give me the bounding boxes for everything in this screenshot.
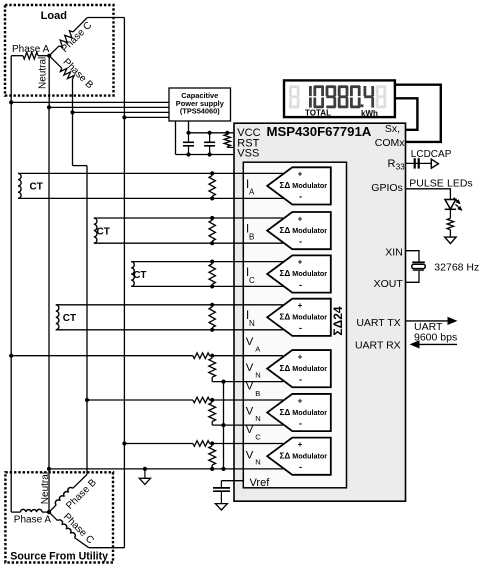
svg-text:Modulator: Modulator: [292, 181, 327, 190]
svg-text:+: +: [298, 170, 303, 179]
VN common vertical wire: [223, 382, 225, 469]
pin UART TX label: [356, 317, 400, 329]
pin Sx COMx labels: [375, 123, 405, 149]
svg-text:Sx,: Sx,: [385, 123, 400, 135]
capacitor C2: [204, 133, 215, 155]
svg-text:B: B: [249, 232, 254, 241]
resistor LED: [447, 218, 454, 230]
LCDCAP arrow: [431, 159, 438, 168]
voltage divider phase A VN wire: [212, 380, 283, 384]
voltage divider phase A series wire: [11, 355, 193, 357]
svg-text:LEDs: LEDs: [447, 177, 473, 189]
phase A vertical wire: [10, 102, 12, 512]
LED series wire: [449, 209, 451, 218]
voltage divider phase B shunt resistor: [209, 403, 216, 426]
svg-text:Modulator: Modulator: [292, 364, 327, 373]
ground G1: [139, 467, 150, 485]
XIN wire: [406, 251, 420, 262]
svg-text:Neutral: Neutral: [40, 472, 51, 504]
current transformer CT1 phase A burden resistor: [209, 176, 215, 197]
voltage divider phase B VN wire: [212, 423, 283, 427]
svg-text:Modulator: Modulator: [292, 408, 327, 417]
source label Phase C: [61, 511, 96, 546]
voltage divider phase C tap node: [122, 441, 126, 445]
LCD common bus wire: [395, 98, 418, 130]
svg-text:N: N: [249, 319, 255, 328]
phase C bus node: [122, 115, 126, 119]
VSS rail wire: [176, 154, 235, 156]
sigma-delta modulator A channel: [267, 167, 331, 204]
current transformer CT4 neutral coil and wires: [56, 303, 283, 332]
svg-text:N: N: [255, 414, 260, 423]
LED D1: [445, 200, 456, 210]
svg-text:TOTAL: TOTAL: [305, 109, 331, 118]
neutral vertical wire: [48, 107, 50, 512]
UART TX wire: [406, 317, 458, 325]
svg-text:MSP430F67791A: MSP430F67791A: [267, 124, 372, 139]
XOUT wire: [406, 271, 420, 283]
sigma-delta modulator VC channel: [267, 438, 331, 475]
voltage divider phase C shunt resistor: [209, 446, 216, 469]
svg-text:CT: CT: [63, 313, 76, 324]
SD24 label: [331, 306, 345, 336]
svg-text:-: -: [299, 280, 302, 290]
svg-text:Load: Load: [41, 10, 67, 22]
supply VCC drop wire: [188, 121, 190, 133]
current transformer CT1 phase A label: [30, 182, 43, 193]
svg-text:ΣΔ: ΣΔ: [280, 364, 291, 373]
pin VA label: [246, 336, 261, 353]
svg-text:+: +: [298, 396, 303, 405]
source phase B wire: [49, 475, 87, 513]
source inductor phase B: [55, 487, 72, 504]
svg-text:-: -: [299, 323, 302, 333]
capacitor Vref: [213, 488, 230, 504]
VCC rail nodes: [186, 131, 229, 135]
voltage divider phase C to pin wire: [210, 441, 284, 445]
phase C bus wire: [124, 116, 169, 118]
current transformer CT2 phase B coil and wires: [94, 216, 283, 245]
load box: [5, 5, 114, 96]
ground G3: [445, 237, 456, 244]
source label Phase B: [64, 477, 99, 512]
voltage divider phase A series resistor: [193, 353, 210, 359]
voltage divider phase B series resistor: [193, 397, 210, 403]
svg-text:R: R: [388, 158, 396, 170]
svg-text:ΣΔ: ΣΔ: [280, 269, 291, 278]
svg-text:Modulator: Modulator: [292, 269, 327, 278]
svg-text:33: 33: [396, 163, 405, 172]
phase A bus wire: [11, 101, 169, 103]
load phase A wire: [11, 55, 49, 57]
UART RX wire: [410, 340, 458, 348]
svg-text:PULSE: PULSE: [409, 177, 443, 189]
load title: [41, 10, 67, 22]
svg-text:+: +: [298, 440, 303, 449]
svg-text:Neutral: Neutral: [37, 57, 48, 89]
svg-text:V: V: [246, 406, 254, 418]
neutral rail wire: [47, 467, 283, 471]
svg-text:ΣΔ24: ΣΔ24: [331, 306, 345, 336]
load label Phase C: [59, 20, 94, 55]
svg-text:V: V: [246, 336, 254, 348]
svg-text:Phase A: Phase A: [12, 44, 50, 55]
current transformer CT4 neutral burden resistor: [209, 307, 215, 328]
load phase B wire: [49, 56, 62, 68]
source inductor phase C: [58, 520, 76, 538]
svg-text:N: N: [255, 458, 260, 467]
LCD label kWh: [361, 109, 378, 118]
load phase B drop wire: [72, 79, 74, 113]
LED ground wire: [449, 230, 451, 237]
svg-text:Modulator: Modulator: [292, 313, 327, 322]
load label Phase A: [12, 44, 50, 55]
supply VSS drop wire: [175, 121, 177, 155]
pin VC label: [246, 424, 261, 441]
label PULSE LEDs: [409, 177, 472, 189]
power supply text: [176, 91, 225, 116]
voltage divider phase A to pin wire: [210, 354, 284, 358]
current transformer CT3 phase C label: [133, 270, 146, 281]
load resistor phase B: [60, 68, 74, 79]
source wye node: [47, 510, 51, 514]
svg-text:XIN: XIN: [385, 246, 403, 258]
svg-text:VSS: VSS: [237, 148, 259, 160]
svg-text:ΣΔ: ΣΔ: [280, 313, 291, 322]
MCU U1 title: [267, 124, 372, 139]
svg-text:UART RX: UART RX: [355, 339, 401, 351]
svg-text:Modulator: Modulator: [292, 451, 327, 460]
svg-text:ΣΔ: ΣΔ: [280, 181, 291, 190]
sigma-delta modulator VA channel: [267, 350, 331, 387]
pin VN (B) label: [246, 406, 261, 423]
load neutral wire: [48, 56, 50, 109]
voltage divider phase A shunt resistor: [209, 358, 216, 381]
Vref wire: [221, 481, 243, 488]
label LCDCAP: [411, 149, 452, 160]
resistor RST pullup: [224, 134, 234, 147]
load resistor phase C: [59, 31, 73, 47]
svg-text:CT: CT: [30, 182, 43, 193]
MCU U1 MSP430F67791A body: [234, 123, 406, 501]
svg-text:32768 Hz: 32768 Hz: [434, 262, 479, 274]
svg-text:A: A: [249, 188, 255, 197]
pin IB label: [246, 224, 254, 242]
pin R33 label: [388, 158, 406, 171]
source box: [5, 472, 113, 562]
source phase C wire: [49, 512, 89, 548]
current transformer CT2 phase B burden resistor: [209, 220, 215, 241]
load label Phase B: [61, 57, 96, 92]
label UART: [414, 321, 443, 333]
svg-text:+: +: [298, 214, 303, 223]
phase C vertical wire: [123, 117, 125, 547]
svg-text:C: C: [255, 432, 261, 441]
phase C top wire: [123, 18, 125, 118]
pin IA label: [246, 179, 255, 197]
pin VB label: [246, 380, 261, 397]
svg-text:Vref: Vref: [250, 477, 271, 489]
power supply box: [169, 88, 231, 121]
svg-text:-: -: [299, 418, 302, 428]
pin Vref label: [250, 477, 271, 489]
phase B vertical wire: [73, 112, 88, 474]
pin GPIOs label: [371, 182, 403, 194]
source phase A tail wire: [42, 511, 49, 513]
current transformer CT1 phase A coil and wires: [18, 171, 283, 200]
svg-text:ΣΔ: ΣΔ: [280, 451, 291, 460]
svg-text:V: V: [246, 380, 254, 392]
GPIO wire: [406, 189, 451, 200]
svg-text:Phase A: Phase A: [14, 515, 52, 526]
svg-text:ΣΔ: ΣΔ: [280, 408, 291, 417]
load wye node: [47, 54, 51, 58]
source label Neutral: [40, 472, 51, 504]
current transformer CT3 phase C burden resistor: [209, 264, 215, 284]
neutral bus node: [47, 105, 51, 109]
svg-text:B: B: [255, 389, 260, 398]
svg-text:+: +: [298, 352, 303, 361]
svg-text:-: -: [299, 192, 302, 202]
LCD segment bus wire: [395, 85, 441, 142]
current transformer CT3 phase C coil and wires: [131, 260, 283, 289]
svg-text:UART TX: UART TX: [356, 317, 400, 329]
load resistor phase A: [23, 52, 38, 59]
sigma-delta modulator B channel: [267, 212, 331, 249]
svg-text:V: V: [246, 424, 254, 436]
source phase C exit wire: [89, 547, 125, 549]
sigma-delta modulator VB channel: [267, 394, 331, 431]
source label Phase A: [14, 515, 52, 526]
svg-text:CT: CT: [133, 270, 146, 281]
load phase C wire: [49, 18, 124, 56]
voltage divider phase C series resistor: [193, 441, 210, 447]
phase A bus node: [9, 100, 13, 104]
load phase A drop wire: [10, 56, 12, 103]
svg-text:9600 bps: 9600 bps: [414, 332, 457, 344]
svg-text:-: -: [299, 374, 302, 384]
neutral bus wire: [49, 106, 169, 108]
pin XIN label: [385, 246, 403, 258]
VCC rail wire: [189, 132, 235, 134]
svg-text:N: N: [255, 370, 260, 379]
load label Neutral: [37, 57, 48, 89]
svg-text:V: V: [246, 362, 254, 374]
sigma-delta modulator C channel: [267, 255, 331, 292]
phase B bus node: [70, 110, 74, 114]
sigma-delta ADC block SD24 box: [243, 162, 346, 488]
current transformer CT4 neutral label: [63, 313, 76, 324]
svg-text:+: +: [298, 301, 303, 310]
svg-text:kWh: kWh: [361, 109, 378, 118]
LED light arrows: [454, 198, 462, 211]
svg-text:-: -: [299, 462, 302, 472]
pin IN label: [246, 310, 255, 328]
voltage divider phase B tap node: [85, 398, 89, 402]
pin UART RX label: [355, 339, 401, 351]
pin XOUT label: [374, 278, 404, 290]
pin IC label: [246, 267, 255, 285]
pin VSS label: [237, 148, 259, 160]
svg-text:V: V: [246, 449, 254, 461]
svg-text:XOUT: XOUT: [374, 278, 404, 290]
source inductor phase A: [21, 509, 43, 512]
pin VCC label: [237, 127, 260, 139]
svg-text:(TPS54060): (TPS54060): [180, 107, 220, 116]
label 32768 Hz: [434, 262, 479, 274]
svg-text:ΣΔ: ΣΔ: [280, 226, 291, 235]
svg-text:Source From Utility: Source From Utility: [10, 550, 108, 562]
VSS rail nodes: [186, 152, 211, 156]
LCD display bezel: [284, 80, 395, 117]
sigma-delta modulator N channel: [267, 299, 331, 336]
svg-text:CT: CT: [97, 226, 110, 237]
current transformer CT2 phase B label: [97, 226, 110, 237]
ground G2: [215, 504, 227, 510]
svg-text:C: C: [249, 276, 255, 285]
capacitor LCDCAP: [415, 158, 419, 168]
voltage divider phase B to pin wire: [210, 398, 284, 402]
LCD seven-segment reading 10980.4: [289, 85, 386, 108]
svg-text:GPIOs: GPIOs: [371, 182, 403, 194]
svg-text:COMx: COMx: [375, 137, 405, 149]
svg-text:+: +: [298, 258, 303, 267]
voltage divider phase A tap node: [9, 354, 13, 358]
source title: [10, 550, 108, 562]
voltage divider phase C series wire: [124, 443, 192, 445]
svg-text:-: -: [299, 236, 302, 246]
label 9600 bps: [414, 332, 457, 344]
svg-text:Modulator: Modulator: [292, 226, 327, 235]
phase B bus wire: [73, 111, 170, 113]
pin RST label: [237, 137, 259, 149]
source phase A wire: [11, 511, 20, 513]
pin VN (A) label: [246, 362, 261, 379]
voltage divider phase B series wire: [87, 399, 193, 401]
capacitor C1: [183, 133, 194, 155]
pin VN (C) label: [246, 449, 261, 466]
LCDCAP wire: [406, 162, 432, 164]
LCD label TOTAL: [305, 109, 332, 118]
crystal Y1 32768Hz: [412, 262, 425, 270]
